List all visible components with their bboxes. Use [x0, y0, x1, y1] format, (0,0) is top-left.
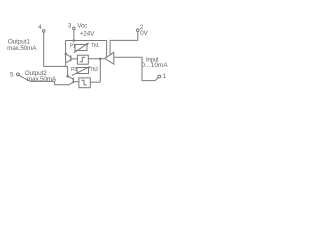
svg-text:P2: P2 [71, 67, 77, 73]
terminal 4 circle [42, 30, 45, 33]
potentiometer P1 [74, 43, 89, 53]
svg-text:1: 1 [163, 73, 167, 80]
wire schmitt1 to amplifier tip [88, 58, 105, 60]
amplifier triangle [105, 52, 114, 64]
schmitt trigger 1 box [77, 55, 88, 64]
terminal 3 circle [73, 27, 76, 30]
transistor Th2 [68, 76, 79, 85]
+24V rail [66, 40, 107, 42]
svg-text:Vcc: Vcc [77, 22, 88, 29]
terminal 5 circle [17, 73, 20, 76]
0V drop to amplifier [110, 32, 138, 55]
transistor Th2 vertical feed [67, 66, 69, 76]
wire from terminal 4 [44, 32, 68, 66]
svg-text:4: 4 [38, 24, 42, 31]
svg-text:Th2: Th2 [90, 67, 98, 73]
wire schmitt2 out [90, 81, 100, 83]
node junction dot on rail [73, 39, 76, 42]
svg-text:0...10mA: 0...10mA [141, 62, 168, 69]
svg-text:+24V: +24V [80, 30, 96, 37]
svg-text:max.50mA: max.50mA [27, 76, 57, 83]
svg-text:5: 5 [10, 72, 14, 79]
node dot [99, 58, 102, 61]
node dot transistor Th1 collector [65, 53, 68, 56]
svg-text:3: 3 [68, 23, 72, 30]
terminal 1 circle [158, 75, 161, 78]
svg-text:P1: P1 [70, 43, 76, 49]
input wire [114, 57, 158, 80]
svg-text:0V: 0V [140, 30, 148, 37]
+24V drop to amplifier [106, 41, 108, 58]
svg-text:Th1: Th1 [91, 43, 99, 49]
schmitt trigger 2 box [79, 78, 90, 88]
vertical wire joining channel 2 [99, 59, 101, 82]
potentiometer P2 [72, 66, 91, 75]
terminal 2 circle [137, 29, 140, 32]
svg-text:max.50mA: max.50mA [7, 45, 37, 52]
wire from terminal 5 [19, 76, 68, 85]
transistor Th1 [66, 54, 78, 63]
wire from terminal 3 down to +24V rail [73, 30, 75, 41]
left vertical wire [65, 41, 67, 67]
node dot transistor Th2 [66, 75, 69, 78]
